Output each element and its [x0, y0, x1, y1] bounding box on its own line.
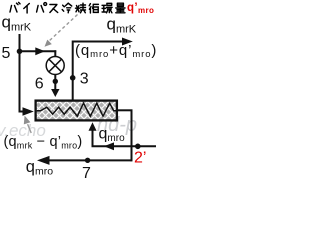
循 [89, 4, 98, 13]
node 3 dot [70, 75, 76, 81]
node 5 dot [17, 49, 23, 55]
wire: top arrow horizontal q_mrK [73, 41, 123, 43]
wire: right vertical down to suction line [131, 110, 133, 161]
flow arrowhead left on return line [104, 142, 114, 150]
パ [37, 3, 47, 12]
title バイパス冷媒循環量 (faked strokes) [10, 2, 125, 13]
冷 [62, 3, 71, 13]
flow arrowhead right (top) [122, 38, 133, 46]
wire: node5 to expansion valve horizontal [20, 50, 57, 52]
バ [10, 2, 20, 12]
flow arrowhead left (suction) [37, 156, 50, 165]
svg-text:q’mro: q’mro [127, 2, 154, 15]
svg-text:(qmrk − q’mro): (qmrk − q’mro) [4, 134, 83, 150]
svg-text:(qmro+q’mro): (qmro+q’mro) [75, 42, 156, 60]
svg-text:3: 3 [80, 70, 89, 87]
wire: left pipe bottom horizontal into exchanger [19, 111, 26, 113]
wire: exchanger outlet right horizontal [117, 109, 133, 111]
node 7 dot [85, 158, 90, 163]
svg-text:7: 7 [82, 165, 91, 182]
svg-text:qmrK: qmrK [107, 15, 137, 36]
wire: left pipe vertical from q_mrK down to heat exchanger inlet corner [19, 34, 21, 112]
wire: valve inlet vertical stub [54, 50, 56, 57]
node 2' dot [135, 144, 141, 150]
ス [50, 5, 58, 13]
svg-text:qmrK: qmrK [2, 13, 32, 34]
flow arrowhead up into exchanger bottom [89, 122, 97, 130]
evaporator coil zigzag inside exchanger [37, 103, 117, 116]
node 6 dot [53, 79, 58, 84]
heat exchanger (intercooler) body [36, 101, 117, 121]
媒 [76, 3, 86, 13]
flow arrowhead into exchanger left [23, 107, 34, 115]
svg-text:2’: 2’ [134, 150, 146, 167]
wire: valve outlet vertical [54, 74, 56, 90]
svg-text:5: 5 [2, 45, 11, 62]
環 [102, 3, 112, 12]
svg-text:6: 6 [35, 75, 44, 92]
wire: vertical from top corner down to exchanger (node 3 branch) [72, 41, 74, 101]
量 [116, 3, 125, 13]
flow arrowhead toward valve [35, 47, 45, 55]
dashed gray annotation arrow from title to valve [45, 15, 78, 47]
flow arrowhead down into exchanger top [51, 89, 59, 97]
wire: bottom return line from right edge (2') to exchanger bottom [93, 127, 157, 146]
expansion valve V (circle with X) [46, 57, 64, 75]
イ [24, 4, 30, 14]
gray annotation arrow from label to exchanger inlet [24, 116, 31, 133]
wire: suction line bottom horizontal [49, 159, 132, 161]
